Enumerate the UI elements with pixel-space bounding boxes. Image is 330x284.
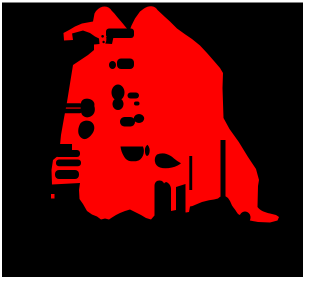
red dot left edge — [51, 194, 55, 199]
black bar left1 — [61, 103, 82, 107]
black mass C — [61, 31, 100, 66]
red wedge left — [64, 32, 74, 40]
black blob I — [112, 85, 125, 101]
main red region — [52, 6, 280, 222]
black bar left2 — [59, 109, 82, 114]
black bar K — [55, 170, 79, 179]
black bar R — [221, 140, 226, 197]
black bar H1 — [55, 150, 80, 157]
black dash2 — [134, 102, 140, 106]
black rect E — [117, 59, 134, 70]
black notch above H1 — [55, 144, 72, 151]
black blob F — [81, 99, 95, 118]
black blob G — [78, 121, 94, 139]
black bar J — [120, 117, 135, 127]
red curl in black — [100, 33, 107, 45]
black blob M — [121, 147, 144, 162]
black tower B — [176, 184, 186, 218]
black bar H2 — [56, 160, 81, 167]
black bump2 under boot — [240, 212, 251, 224]
black blob right of J — [134, 114, 144, 123]
black bump1 under boot — [226, 208, 237, 222]
black wedge below bar B — [104, 37, 114, 44]
black blob O — [155, 153, 181, 168]
black dash — [128, 93, 140, 99]
black tower A — [155, 181, 172, 219]
black bar P — [189, 156, 192, 190]
black blob N — [145, 145, 150, 156]
black circle D — [109, 61, 116, 69]
black bar B below peaks — [106, 29, 134, 39]
